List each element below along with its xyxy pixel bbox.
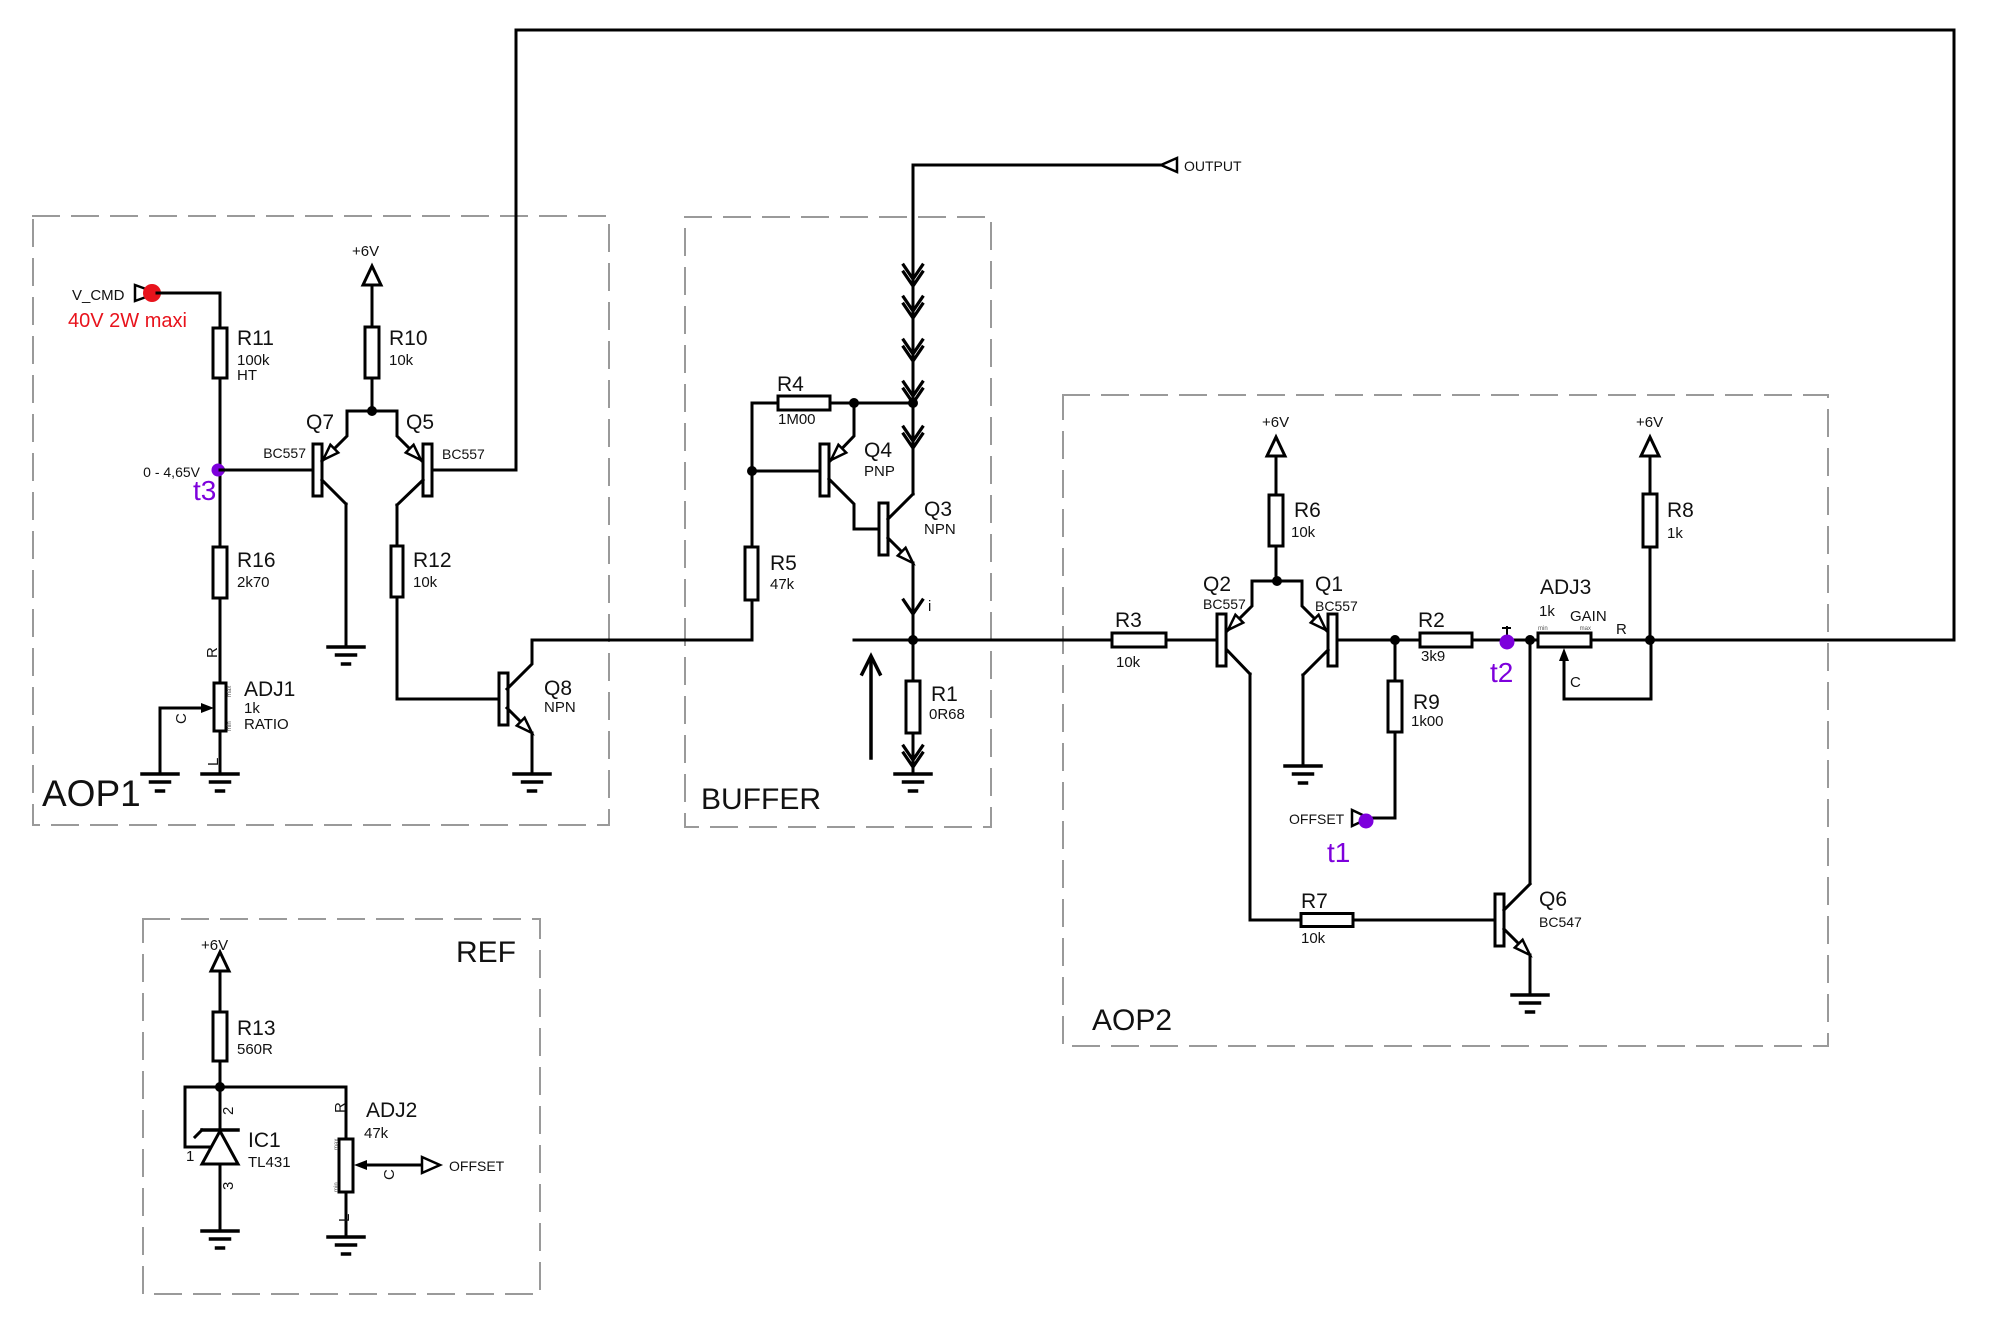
value 0R68 <box>929 706 965 723</box>
wire Q7 collector to ground <box>345 504 348 645</box>
value 10k of R12 <box>413 574 438 591</box>
svg-text:2k70: 2k70 <box>237 574 270 591</box>
wire R9 to OFFSET arrow <box>1369 732 1395 818</box>
svg-text:R3: R3 <box>1115 609 1142 632</box>
svg-text:REF: REF <box>456 936 516 969</box>
resistor R13 <box>213 1012 227 1061</box>
svg-text:min: min <box>1538 626 1548 632</box>
label BC557 of Q2 <box>1203 596 1246 612</box>
label 40V 2W maxi <box>68 310 187 332</box>
svg-text:Q6: Q6 <box>1539 888 1567 911</box>
label OUTPUT <box>1184 158 1242 174</box>
svg-text:10k: 10k <box>1301 930 1326 947</box>
wire V_CMD to R11 <box>157 293 220 328</box>
pin label L of ADJ1 <box>205 758 222 766</box>
label R5 <box>770 552 797 575</box>
node ADJ3 right junction <box>1645 635 1655 645</box>
resistor R16 <box>213 547 227 598</box>
svg-text:BC557: BC557 <box>1203 596 1246 612</box>
svg-text:NPN: NPN <box>924 521 956 538</box>
label OFFSET AOP2 <box>1289 811 1345 827</box>
node output junction <box>908 635 918 645</box>
svg-text:ADJ2: ADJ2 <box>366 1099 417 1122</box>
svg-text:R: R <box>332 1102 349 1113</box>
svg-text:R: R <box>204 647 221 658</box>
pin label R of ADJ1 <box>204 647 221 658</box>
svg-text:Q1: Q1 <box>1315 573 1343 596</box>
wire Q8 collector to R5 <box>532 600 752 640</box>
svg-text:min: min <box>334 1182 340 1192</box>
resistor R3 <box>1112 633 1166 647</box>
wire R11 to R16 (node t3) <box>219 378 222 547</box>
wire R5 top to R4 <box>751 403 754 600</box>
transistor Q4 PNP <box>820 403 879 529</box>
pin label 3 of IC1 <box>220 1182 237 1190</box>
svg-text:max: max <box>1580 626 1591 632</box>
wire Q6 emitter to ground <box>1529 955 1532 993</box>
resistor R11 <box>213 328 227 378</box>
value RATIO <box>244 716 289 733</box>
label R13 <box>237 1017 276 1040</box>
label Q5 <box>406 411 434 434</box>
wire R6 to tail AOP2 <box>1275 546 1278 581</box>
resistor R4 <box>778 396 830 410</box>
wire R4 to main vertical <box>830 402 913 405</box>
svg-text:HT: HT <box>237 367 257 384</box>
svg-text:Q7: Q7 <box>306 411 334 434</box>
svg-text:L: L <box>205 758 222 766</box>
label R1 <box>931 683 958 706</box>
wire R13 to IC1 <box>219 1061 222 1130</box>
shunt regulator IC1 TL431 <box>195 1130 238 1164</box>
svg-text:ADJ3: ADJ3 <box>1540 576 1591 599</box>
svg-text:RATIO: RATIO <box>244 716 289 733</box>
ground below R1 <box>895 774 931 791</box>
wire Q8 emitter to ground <box>531 733 534 772</box>
wire output node to R1 <box>912 640 915 681</box>
label Q4 <box>864 439 892 462</box>
svg-text:PNP: PNP <box>864 463 895 480</box>
pin label 2 of IC1 <box>220 1107 237 1115</box>
label R6 <box>1294 499 1321 522</box>
label NPN of Q3 <box>924 521 956 538</box>
wire tail bar of Q7 Q5 pair <box>347 410 397 413</box>
svg-text:t3: t3 <box>193 475 216 506</box>
value 1k of R8 <box>1667 525 1683 542</box>
ADJ3 wiper arrow <box>1559 648 1569 699</box>
wire R7 to Q6 base <box>1353 919 1495 922</box>
value GAIN <box>1570 608 1607 625</box>
value 1k00 <box>1411 713 1444 730</box>
wire ADJ2 bottom to ground <box>345 1192 348 1237</box>
wire feedback top rail <box>516 29 1954 32</box>
wire ADJ3 wiper to node <box>1564 640 1651 699</box>
potentiometer ADJ1 <box>214 683 233 731</box>
svg-text:10k: 10k <box>1116 654 1141 671</box>
svg-text:R16: R16 <box>237 549 276 572</box>
svg-text:Q5: Q5 <box>406 411 434 434</box>
wire Q2 collector to R7 <box>1250 674 1301 920</box>
label ADJ2 <box>366 1099 417 1122</box>
input connector arrow V_CMD <box>135 285 157 301</box>
probe t2 tick <box>1503 627 1510 637</box>
value 10k of R10 <box>389 352 414 369</box>
svg-text:3k9: 3k9 <box>1421 648 1445 665</box>
ADJ1 wiper arrow <box>160 703 214 713</box>
label i <box>928 598 931 615</box>
svg-text:BC557: BC557 <box>263 445 306 461</box>
wire output node to R3 <box>854 639 1112 642</box>
svg-text:OFFSET: OFFSET <box>449 1158 505 1174</box>
svg-text:10k: 10k <box>1291 524 1316 541</box>
svg-text:max: max <box>334 1139 340 1150</box>
wire node to R9 <box>1394 640 1397 681</box>
transistor Q8 NPN <box>499 640 532 733</box>
svg-text:560R: 560R <box>237 1041 273 1058</box>
label NPN of Q8 <box>544 699 576 716</box>
probe t1 purple dot <box>1359 814 1374 829</box>
svg-text:1k: 1k <box>244 700 260 717</box>
label R10 <box>389 327 428 350</box>
wire Q6 collector riser <box>1529 640 1532 882</box>
svg-text:+6V: +6V <box>1262 414 1289 431</box>
value 560R <box>237 1041 273 1058</box>
block label AOP2 <box>1092 1004 1172 1037</box>
svg-text:BC557: BC557 <box>442 446 485 462</box>
label ADJ3 <box>1540 576 1591 599</box>
svg-text:AOP1: AOP1 <box>42 773 141 814</box>
svg-text:R5: R5 <box>770 552 797 575</box>
label IC1 <box>248 1129 281 1152</box>
resistor R10 <box>365 327 379 378</box>
node t3 junction <box>215 465 225 475</box>
wire REF node to ADJ2 <box>220 1087 346 1139</box>
wire IC1 reference loop <box>185 1087 220 1147</box>
transistor Q3 NPN <box>879 494 913 563</box>
label Q6 <box>1539 888 1567 911</box>
svg-text:TL431: TL431 <box>248 1154 291 1171</box>
svg-text:3: 3 <box>220 1182 237 1190</box>
svg-text:R12: R12 <box>413 549 452 572</box>
wire main vertical junction to Q3 collector <box>904 403 923 494</box>
value 1M00 <box>778 411 816 428</box>
svg-text:C: C <box>381 1169 398 1180</box>
svg-text:GAIN: GAIN <box>1570 608 1607 625</box>
svg-text:t1: t1 <box>1327 837 1350 868</box>
node Q4 base junction <box>747 466 757 476</box>
wire Q5 collector to R12 <box>396 505 399 546</box>
ground below IC1 <box>202 1231 238 1248</box>
power arrow +6V R8 <box>1641 437 1659 494</box>
svg-text:47k: 47k <box>770 576 795 593</box>
ground at Q1 collector <box>1285 766 1321 783</box>
node REF junction <box>215 1082 225 1092</box>
svg-text:10k: 10k <box>413 574 438 591</box>
ground at Q7 collector <box>328 647 364 664</box>
label PNP of Q4 <box>864 463 895 480</box>
label R9 <box>1413 691 1440 714</box>
block label REF <box>456 936 516 969</box>
svg-text:Q4: Q4 <box>864 439 892 462</box>
offset connector arrow AOP2 <box>1352 810 1369 826</box>
label +6V above R6 <box>1262 414 1289 431</box>
svg-text:47k: 47k <box>364 1125 389 1142</box>
value 100k <box>237 352 270 369</box>
wire Q5 base to feedback <box>432 469 516 472</box>
transistor Q6 BC547 <box>1495 884 1530 955</box>
svg-text:BC557: BC557 <box>1315 598 1358 614</box>
power arrow +6V R10 <box>363 266 381 327</box>
resistor R6 <box>1269 495 1283 546</box>
probe t2 purple dot <box>1500 635 1515 650</box>
label BC557 of Q1 <box>1315 598 1358 614</box>
svg-text:R1: R1 <box>931 683 958 706</box>
probe t3 purple dot <box>212 464 225 477</box>
svg-text:10k: 10k <box>389 352 414 369</box>
svg-text:R8: R8 <box>1667 499 1694 522</box>
svg-text:+6V: +6V <box>1636 414 1663 431</box>
label Q2 <box>1203 573 1231 596</box>
svg-text:0R68: 0R68 <box>929 706 965 723</box>
potentiometer ADJ2 <box>334 1139 353 1192</box>
resistor R1 <box>906 681 920 733</box>
red highlight dot on V_CMD <box>143 284 161 302</box>
output connector arrow <box>1161 158 1177 172</box>
wire tail bar of Q2 Q1 pair <box>1252 580 1302 583</box>
ground below ADJ2 <box>328 1237 364 1254</box>
wire feedback left drop to Q5 base <box>515 30 518 470</box>
label Q1 <box>1315 573 1343 596</box>
svg-text:1M00: 1M00 <box>778 411 816 428</box>
svg-text:i: i <box>928 598 931 615</box>
svg-text:max: max <box>227 686 233 697</box>
svg-text:R10: R10 <box>389 327 428 350</box>
svg-text:R9: R9 <box>1413 691 1440 714</box>
label BC557 of Q5 <box>442 446 485 462</box>
label BC557 of Q7 <box>263 445 306 461</box>
svg-text:2: 2 <box>220 1107 237 1115</box>
label R3 <box>1115 609 1142 632</box>
svg-text:+6V: +6V <box>352 243 379 260</box>
wire R10 to tail <box>371 378 374 411</box>
resistor R7 <box>1301 914 1353 927</box>
power arrow +6V R6 <box>1267 437 1285 495</box>
svg-text:ADJ1: ADJ1 <box>244 678 295 701</box>
ground at Q6 emitter <box>1512 995 1548 1012</box>
block label BUFFER <box>701 783 821 816</box>
value 47k <box>770 576 795 593</box>
wire R8 to node <box>1649 547 1652 640</box>
ground at Q8 emitter <box>514 774 550 791</box>
svg-text:BC547: BC547 <box>1539 914 1582 930</box>
dashed frame REF block <box>143 919 540 1294</box>
label R8 <box>1667 499 1694 522</box>
value 1k of ADJ3 <box>1539 603 1555 620</box>
transistor Q2 BC557 <box>1217 581 1252 674</box>
label BC547 of Q6 <box>1539 914 1582 930</box>
wire R1 to ground with chevrons <box>904 733 923 771</box>
ground at ADJ1 wiper <box>142 774 178 791</box>
wire ADJ3 to node <box>1591 639 1650 642</box>
pin label R of ADJ2 <box>332 1102 349 1113</box>
node tail junction AOP1 <box>367 406 377 416</box>
svg-text:R7: R7 <box>1301 890 1328 913</box>
label t2 <box>1490 657 1513 688</box>
svg-text:Q3: Q3 <box>924 498 952 521</box>
wire Q1 base to node <box>1337 639 1395 642</box>
wire feedback bottom to main node <box>1650 639 1954 642</box>
resistor R8 <box>1643 494 1657 547</box>
label Q3 <box>924 498 952 521</box>
node ADJ3 left junction <box>1525 635 1535 645</box>
power arrow +6V R13 <box>211 952 229 1012</box>
ground at ADJ1 bottom <box>202 774 238 791</box>
svg-text:+6V: +6V <box>201 937 228 954</box>
pin label C of ADJ2 <box>381 1169 398 1180</box>
node main vertical junction <box>908 398 918 408</box>
pin label 1 of IC1 <box>186 1148 194 1165</box>
label Q8 <box>544 677 572 700</box>
wire Q1 collector to ground <box>1302 675 1305 764</box>
offset connector arrow REF <box>422 1157 440 1173</box>
svg-text:1k00: 1k00 <box>1411 713 1444 730</box>
block label AOP1 <box>42 773 141 814</box>
resistor R5 <box>745 547 758 600</box>
ADJ2 wiper arrow <box>354 1160 422 1170</box>
wire Q4 base <box>752 470 820 473</box>
value TL431 <box>248 1154 291 1171</box>
svg-text:40V 2W maxi: 40V 2W maxi <box>68 310 187 332</box>
value 1k <box>244 700 260 717</box>
label R11 <box>237 327 274 350</box>
label R4 <box>777 373 804 396</box>
dashed frame AOP2 block <box>1063 395 1828 1046</box>
svg-text:R2: R2 <box>1418 609 1445 632</box>
svg-text:BUFFER: BUFFER <box>701 783 821 816</box>
resistor R9 <box>1388 681 1402 732</box>
svg-text:NPN: NPN <box>544 699 576 716</box>
wire feedback right drop <box>1953 30 1956 640</box>
node R4 right junction <box>849 398 859 408</box>
value 10k of R6 <box>1291 524 1316 541</box>
dashed frame AOP1 block <box>33 216 609 825</box>
wire R4 left lead <box>752 402 778 405</box>
node tail junction AOP2 <box>1272 576 1282 586</box>
label t3 <box>193 475 216 506</box>
label 0 - 4,65V <box>143 464 200 480</box>
svg-text:R: R <box>1616 621 1627 638</box>
svg-text:1k: 1k <box>1667 525 1683 542</box>
wire ADJ1 wiper to ground <box>159 708 162 774</box>
label OFFSET REF <box>449 1158 505 1174</box>
wire R2 to ADJ3 <box>1472 639 1538 642</box>
wire R12 to Q8 base <box>397 597 500 699</box>
svg-text:R6: R6 <box>1294 499 1321 522</box>
wire OUTPUT horizontal <box>913 164 1161 167</box>
pin label L of ADJ2 <box>336 1214 353 1222</box>
svg-text:R4: R4 <box>777 373 804 396</box>
label R12 <box>413 549 452 572</box>
value HT <box>237 367 257 384</box>
wire node to R2 <box>1395 639 1420 642</box>
svg-text:OUTPUT: OUTPUT <box>1184 158 1242 174</box>
svg-text:L: L <box>336 1214 353 1222</box>
svg-text:C: C <box>173 713 190 724</box>
value 2k70 <box>237 574 270 591</box>
label Q7 <box>306 411 334 434</box>
value 10k of R3 <box>1116 654 1141 671</box>
svg-text:C: C <box>1570 674 1581 691</box>
label R7 <box>1301 890 1328 913</box>
value 47k of ADJ2 <box>364 1125 389 1142</box>
svg-text:R13: R13 <box>237 1017 276 1040</box>
svg-text:1k: 1k <box>1539 603 1555 620</box>
wire ADJ1 bottom to ground <box>219 731 222 774</box>
svg-text:OFFSET: OFFSET <box>1289 811 1345 827</box>
label R2 <box>1418 609 1445 632</box>
svg-text:V_CMD: V_CMD <box>72 287 125 304</box>
dashed frame BUFFER block <box>685 217 991 827</box>
label V_CMD <box>72 287 125 304</box>
wire R3 to Q2 base <box>1166 639 1217 642</box>
pin label C of ADJ3 <box>1570 674 1581 691</box>
potentiometer ADJ3 <box>1538 626 1591 647</box>
label +6V above R8 <box>1636 414 1663 431</box>
label ADJ1 <box>244 678 295 701</box>
transistor Q1 BC557 <box>1302 581 1337 675</box>
wire R16 to ADJ1 <box>219 598 222 683</box>
label R16 <box>237 549 276 572</box>
value 10k of R7 <box>1301 930 1326 947</box>
svg-text:t2: t2 <box>1490 657 1513 688</box>
label +6V above R13 <box>201 937 228 954</box>
svg-text:R11: R11 <box>237 327 274 350</box>
wire OUTPUT vertical drop with current chevrons <box>904 165 923 403</box>
svg-text:Q2: Q2 <box>1203 573 1231 596</box>
wire Q3 emitter to output node <box>904 563 923 640</box>
transistor Q7 BC557 <box>313 411 347 504</box>
wire t3 to Q7 base <box>220 469 313 472</box>
wire IC1 anode to ground <box>219 1164 222 1231</box>
pin label R of ADJ3 <box>1616 621 1627 638</box>
svg-text:min: min <box>227 721 233 731</box>
label t1 <box>1327 837 1350 868</box>
value 3k9 <box>1421 648 1445 665</box>
current direction arrow up <box>862 656 880 758</box>
svg-text:IC1: IC1 <box>248 1129 281 1152</box>
svg-text:1: 1 <box>186 1148 194 1165</box>
resistor R2 <box>1420 633 1472 647</box>
svg-text:AOP2: AOP2 <box>1092 1004 1172 1037</box>
transistor Q5 BC557 <box>397 411 432 505</box>
label +6V above R10 <box>352 243 379 260</box>
resistor R12 <box>391 546 403 597</box>
pin label C of ADJ1 <box>173 713 190 724</box>
node R2 R9 junction <box>1390 635 1400 645</box>
svg-text:Q8: Q8 <box>544 677 572 700</box>
